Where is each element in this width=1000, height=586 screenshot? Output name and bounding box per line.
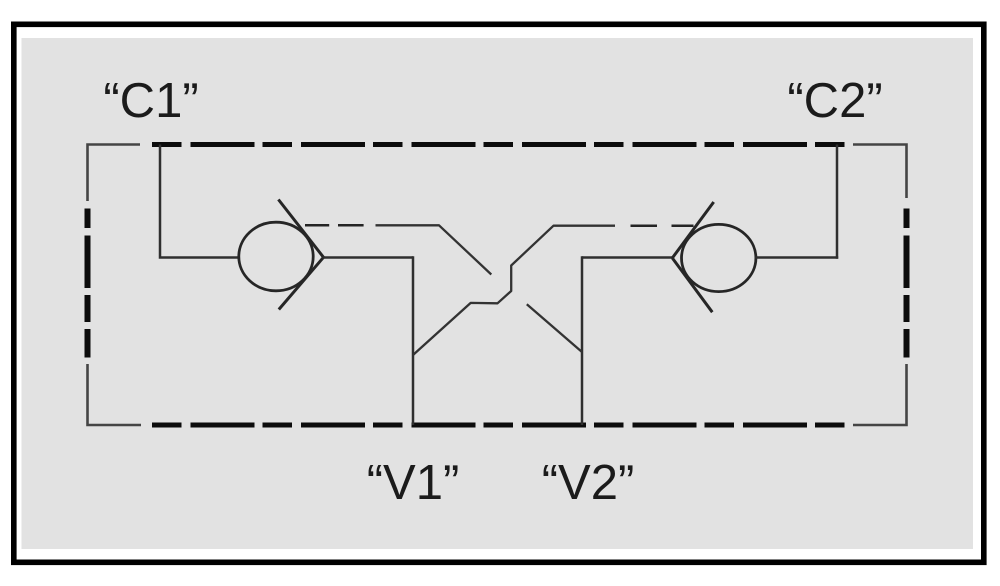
wire CV1 apex to V1 <box>323 256 414 259</box>
check valve CV2 seat lower line <box>672 258 712 312</box>
check valve CV2 ball <box>682 224 756 291</box>
check valve CV1 ball <box>239 222 313 291</box>
svg-text:“V2”: “V2” <box>542 456 635 510</box>
wire V2 to CV2 apex <box>582 256 673 259</box>
pilot line B dashes at CV1 port <box>305 224 364 227</box>
svg-text:“V1”: “V1” <box>367 456 460 510</box>
envelope corner joint top-right <box>853 145 907 199</box>
check valve CV1 seat upper line <box>278 200 323 258</box>
pilot line B lower segment to V2 <box>527 304 582 352</box>
envelope dashed right edge <box>904 209 910 358</box>
svg-text:“C2”: “C2” <box>787 74 882 128</box>
envelope corner joint top-left <box>88 145 141 202</box>
wire C2 vertical <box>836 145 839 259</box>
wire CV2 to C2 <box>755 256 838 259</box>
pilot line B solid run from CV1 port <box>376 225 492 274</box>
wire V1 vertical <box>412 256 415 425</box>
svg-text:“C1”: “C1” <box>103 74 198 128</box>
check valve CV2 seat upper line <box>672 202 713 258</box>
envelope dashed bottom edge <box>152 423 853 428</box>
envelope dashed left edge <box>85 209 91 358</box>
envelope dashed top edge <box>152 142 853 147</box>
pilot line A dashes at CV2 port <box>631 224 694 227</box>
pilot line A from V1 to CV2 (solid run with crossover jog) <box>413 226 615 355</box>
envelope corner joint bottom-left <box>88 364 142 425</box>
check valve CV1 seat lower line <box>279 257 324 309</box>
wire C1 vertical <box>160 145 240 258</box>
wire V2 vertical <box>581 256 584 425</box>
envelope corner joint bottom-right <box>853 364 907 425</box>
